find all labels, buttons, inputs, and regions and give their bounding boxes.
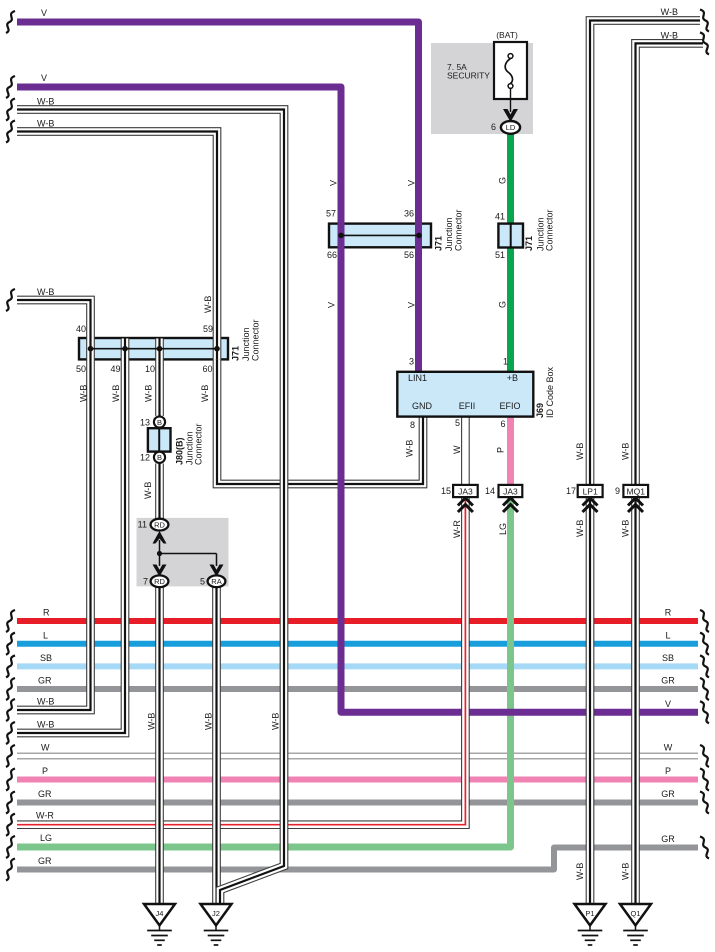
svg-text:SB: SB xyxy=(662,653,674,663)
svg-text:MQ1: MQ1 xyxy=(627,486,646,496)
svg-text:8: 8 xyxy=(410,420,415,430)
svg-text:W-B: W-B xyxy=(575,443,585,460)
svg-text:5: 5 xyxy=(200,577,205,587)
svg-text:40: 40 xyxy=(76,324,86,334)
svg-text:J4: J4 xyxy=(156,909,164,918)
svg-text:J71: J71 xyxy=(524,236,534,251)
svg-text:L: L xyxy=(665,631,670,641)
svg-text:W-B: W-B xyxy=(37,97,54,107)
svg-text:W-B: W-B xyxy=(621,520,631,537)
svg-text:W-B: W-B xyxy=(405,440,415,457)
svg-text:W-B: W-B xyxy=(37,697,54,707)
svg-text:GR: GR xyxy=(38,789,52,799)
svg-text:W-B: W-B xyxy=(37,287,54,297)
svg-text:W: W xyxy=(664,743,673,753)
svg-text:6: 6 xyxy=(500,419,505,429)
svg-text:P: P xyxy=(42,766,48,776)
svg-text:15: 15 xyxy=(441,486,451,496)
svg-text:V: V xyxy=(41,8,47,18)
svg-text:W-B: W-B xyxy=(37,720,54,730)
svg-text:JA3: JA3 xyxy=(503,486,518,496)
svg-text:50: 50 xyxy=(76,364,86,374)
svg-text:J2: J2 xyxy=(212,909,220,918)
svg-text:+B: +B xyxy=(507,373,518,383)
svg-text:R: R xyxy=(43,608,50,618)
svg-text:B: B xyxy=(157,418,162,427)
svg-text:W-B: W-B xyxy=(204,713,214,730)
svg-text:W-B: W-B xyxy=(79,385,89,402)
svg-text:57: 57 xyxy=(326,209,336,219)
svg-text:EFII: EFII xyxy=(459,401,476,411)
svg-text:W-B: W-B xyxy=(575,863,585,880)
svg-text:12: 12 xyxy=(140,453,150,463)
svg-text:GND: GND xyxy=(412,401,433,411)
svg-text:W: W xyxy=(452,445,462,454)
svg-text:66: 66 xyxy=(327,250,337,260)
svg-text:V: V xyxy=(41,73,47,83)
svg-text:51: 51 xyxy=(495,250,505,260)
svg-text:V: V xyxy=(329,180,339,186)
svg-text:W-B: W-B xyxy=(200,385,210,402)
svg-text:GR: GR xyxy=(661,676,675,686)
svg-text:GR: GR xyxy=(38,676,52,686)
svg-text:W-B: W-B xyxy=(661,7,678,17)
svg-text:SECURITY: SECURITY xyxy=(447,71,490,81)
svg-text:J71: J71 xyxy=(434,236,444,251)
svg-text:49: 49 xyxy=(110,364,120,374)
svg-text:P: P xyxy=(496,447,506,453)
svg-text:R: R xyxy=(665,608,672,618)
svg-text:W-R: W-R xyxy=(452,520,462,538)
svg-text:W-B: W-B xyxy=(621,443,631,460)
svg-text:W-R: W-R xyxy=(36,811,54,821)
svg-text:6: 6 xyxy=(491,122,496,132)
svg-text:W-B: W-B xyxy=(147,713,157,730)
svg-text:41: 41 xyxy=(495,212,505,222)
svg-text:W-B: W-B xyxy=(271,713,281,730)
svg-text:JA3: JA3 xyxy=(458,486,473,496)
svg-text:36: 36 xyxy=(404,209,414,219)
svg-text:W-B: W-B xyxy=(111,385,121,402)
svg-text:LG: LG xyxy=(498,523,508,535)
svg-text:V: V xyxy=(327,302,337,308)
svg-text:LG: LG xyxy=(40,833,52,843)
svg-text:13: 13 xyxy=(140,418,150,428)
svg-text:RD: RD xyxy=(154,520,165,529)
svg-text:W-B: W-B xyxy=(661,31,678,41)
svg-text:P1: P1 xyxy=(585,909,594,918)
svg-text:3: 3 xyxy=(409,357,414,367)
svg-text:RA: RA xyxy=(211,577,221,586)
svg-text:W-B: W-B xyxy=(37,119,54,129)
svg-text:J69: J69 xyxy=(535,403,545,418)
svg-text:L: L xyxy=(43,631,48,641)
svg-text:Connector: Connector xyxy=(194,423,204,465)
svg-text:GR: GR xyxy=(661,834,675,844)
svg-text:56: 56 xyxy=(404,250,414,260)
svg-text:Connector: Connector xyxy=(454,209,464,251)
svg-text:G: G xyxy=(498,301,508,308)
svg-text:W-B: W-B xyxy=(144,385,154,402)
svg-text:(BAT): (BAT) xyxy=(496,30,518,40)
svg-text:60: 60 xyxy=(202,364,212,374)
svg-text:J80(B): J80(B) xyxy=(175,437,185,465)
svg-text:Junction: Junction xyxy=(444,217,454,251)
svg-text:Connector: Connector xyxy=(251,319,261,361)
svg-text:Q1: Q1 xyxy=(630,909,640,918)
svg-text:ID Code Box: ID Code Box xyxy=(545,366,555,418)
svg-text:59: 59 xyxy=(203,324,213,334)
svg-text:17: 17 xyxy=(566,486,576,496)
svg-text:V: V xyxy=(407,180,417,186)
svg-text:LD: LD xyxy=(506,123,516,132)
svg-text:EFIO: EFIO xyxy=(499,401,520,411)
svg-text:9: 9 xyxy=(615,486,620,496)
svg-text:W-B: W-B xyxy=(203,296,213,313)
svg-text:V: V xyxy=(665,699,671,709)
svg-text:LP1: LP1 xyxy=(583,486,598,496)
svg-text:GR: GR xyxy=(38,856,52,866)
svg-text:G: G xyxy=(498,177,508,184)
svg-text:B: B xyxy=(157,453,162,462)
svg-text:W-B: W-B xyxy=(143,482,153,499)
svg-text:GR: GR xyxy=(661,789,675,799)
svg-text:RD: RD xyxy=(154,577,165,586)
svg-text:W-B: W-B xyxy=(621,863,631,880)
svg-text:LIN1: LIN1 xyxy=(408,373,427,383)
svg-text:P: P xyxy=(665,766,671,776)
svg-text:SB: SB xyxy=(40,653,52,663)
svg-text:Connector: Connector xyxy=(545,209,555,251)
svg-text:W-B: W-B xyxy=(575,520,585,537)
svg-text:10: 10 xyxy=(145,364,155,374)
svg-text:1: 1 xyxy=(503,357,508,367)
svg-text:5: 5 xyxy=(455,418,460,428)
svg-text:Junction: Junction xyxy=(241,327,251,361)
svg-text:14: 14 xyxy=(485,486,495,496)
svg-text:V: V xyxy=(407,302,417,308)
svg-text:W: W xyxy=(41,743,50,753)
svg-text:J71: J71 xyxy=(231,346,241,361)
svg-text:11: 11 xyxy=(138,520,147,530)
svg-text:7: 7 xyxy=(143,577,148,587)
